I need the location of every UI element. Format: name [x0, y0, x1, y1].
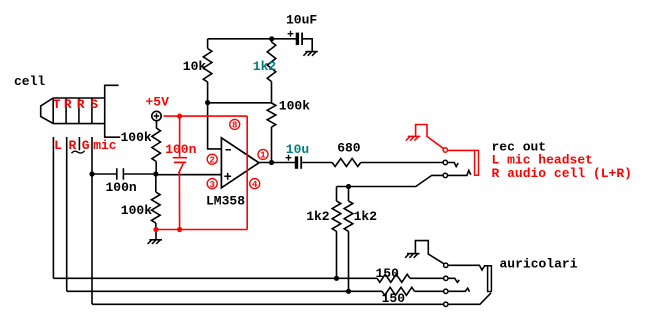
svg-text:L: L	[54, 138, 62, 153]
junction red rail C3	[177, 227, 182, 232]
svg-text:LM358: LM358	[206, 194, 245, 209]
junction mic/cap	[89, 171, 94, 176]
junction mixer R8	[346, 184, 351, 189]
label auricolari	[500, 256, 578, 271]
plug contact divider T/R	[65, 98, 67, 124]
label rec out	[492, 140, 547, 155]
pin number 2	[207, 154, 217, 165]
wire R3 to inverting node	[207, 82, 209, 103]
pin number 3	[207, 179, 217, 190]
wire G stub from plug	[78, 137, 80, 150]
wire bias node to op-amp +input	[156, 174, 222, 176]
svg-text:8: 8	[232, 121, 237, 131]
contact rec out sleeve	[443, 148, 447, 152]
headset plug body	[488, 266, 492, 292]
capacitor C2 10uF	[296, 33, 303, 45]
junction R8 bus R	[346, 289, 351, 294]
resistor R7 1k2 left	[332, 187, 341, 279]
plug ring2 label R	[77, 97, 85, 112]
resistor R1 100k bias upper	[152, 128, 161, 174]
wire bus mic	[92, 303, 444, 305]
svg-text:100n: 100n	[106, 180, 137, 195]
spring rec out tip	[448, 163, 459, 167]
contact headset sleeve	[444, 263, 448, 267]
wire sleeve to rec plug	[448, 149, 475, 151]
node inverting junction	[205, 100, 210, 105]
wire +5V red rail	[164, 115, 248, 117]
node squiggle under G	[72, 151, 85, 153]
svg-text:T: T	[53, 97, 61, 112]
ground GND3 rec out shield	[406, 136, 420, 140]
label R1 100k	[121, 130, 152, 145]
wire bus L	[53, 277, 377, 279]
svg-text:1k2: 1k2	[306, 209, 330, 224]
rec out plug body	[475, 150, 479, 175]
label C2 10uF	[286, 13, 317, 28]
wire rail to C2	[272, 38, 296, 40]
resistor R3 10k feedback	[203, 49, 212, 83]
label R5 100k	[279, 99, 310, 114]
wire C2 to ground	[303, 39, 312, 51]
capacitor C4 10u plus sign	[286, 155, 292, 161]
capacitor C3 100n decoupling lead	[179, 116, 181, 157]
svg-text:3: 3	[209, 180, 214, 190]
svg-text:100k: 100k	[121, 130, 152, 145]
label L mic headset	[492, 153, 593, 168]
ground GND2 for C2	[303, 52, 317, 56]
svg-text:100k: 100k	[121, 203, 152, 218]
contact rec out ring R	[443, 173, 447, 177]
capacitor C3 100n plates	[173, 158, 187, 163]
resistor R4 1k2 feedback	[267, 42, 276, 82]
wire op-amp plus input overdraw	[181, 174, 222, 176]
junction output node	[269, 160, 274, 165]
contact headset ring R	[444, 289, 448, 293]
wire R4 to R5	[271, 82, 273, 103]
wire R10 to headset ring2	[415, 290, 444, 292]
label C3 100n	[165, 142, 196, 157]
junction +5V rail to C3	[177, 114, 182, 119]
junction top rail to C2	[269, 36, 274, 41]
wire mic from plug	[91, 137, 93, 304]
wire op-amp output	[259, 162, 296, 164]
svg-text:R: R	[77, 97, 85, 112]
label G	[82, 138, 90, 153]
plug sleeve label S	[90, 97, 98, 112]
svg-text:100k: 100k	[279, 99, 310, 114]
connector J1 cell TRRS plug body	[41, 98, 105, 124]
resistor R10 150 lower	[382, 287, 415, 295]
capacitor C2 10uF plus sign	[288, 31, 294, 37]
contact headset ring L	[444, 276, 448, 280]
pin number 1	[258, 149, 268, 160]
label R	[69, 138, 77, 153]
cell plug label	[14, 74, 45, 89]
svg-text:1k2: 1k2	[253, 59, 277, 74]
wire +5V circle to R1	[156, 121, 158, 128]
pin number 8	[230, 119, 240, 130]
wire R4 top lead	[271, 39, 273, 42]
plug ring label R	[64, 97, 72, 112]
wire R3 top lead	[207, 39, 209, 49]
pin number 4	[250, 179, 260, 190]
label R8 1k2	[354, 209, 378, 224]
svg-text:680: 680	[337, 140, 361, 155]
wire pin8 pin4 supply line	[246, 116, 248, 229]
label C4 10u	[286, 142, 309, 157]
wire mic to coupling cap	[92, 173, 116, 175]
svg-text:1k2: 1k2	[354, 209, 378, 224]
wire tip to headset plug	[448, 293, 491, 304]
wire R6 to rec out jack	[361, 162, 443, 164]
resistor R6 680	[332, 159, 361, 167]
svg-text:100n: 100n	[165, 142, 196, 157]
svg-text:4: 4	[252, 180, 258, 190]
node bias junction	[153, 171, 158, 176]
label mic	[93, 138, 117, 153]
wire C4 to R6	[302, 162, 332, 164]
op-amp minus sign	[226, 149, 232, 151]
wire inverting node down to pin2	[208, 103, 222, 149]
svg-text:cell: cell	[14, 74, 45, 89]
wire bus R	[67, 290, 382, 292]
svg-text:10u: 10u	[286, 142, 309, 157]
svg-text:2: 2	[209, 155, 214, 165]
plug contact divider R/S	[91, 98, 93, 124]
power terminal +5V circle	[152, 111, 161, 120]
resistor R2 100k bias lower	[152, 174, 161, 230]
svg-text:G: G	[82, 138, 90, 153]
plug barrel outline	[105, 85, 121, 137]
label R6 680	[337, 140, 361, 155]
capacitor C3 lower lead	[179, 164, 183, 230]
svg-text:+5V: +5V	[146, 95, 170, 110]
junction red rail R2	[153, 227, 158, 232]
op-amp U1 LM358 triangle	[221, 138, 259, 188]
wire headset shield bracket	[415, 241, 444, 264]
svg-text:S: S	[90, 97, 98, 112]
contact rec out tip L	[443, 160, 447, 164]
wire R from plug	[66, 137, 68, 291]
wire R5 to output node	[271, 127, 273, 163]
label +5V	[146, 95, 170, 110]
plug tip label T	[53, 97, 61, 112]
spring rec out ring	[448, 170, 471, 175]
label R audio cell	[492, 166, 632, 181]
contact headset tip mic	[444, 302, 448, 306]
wire inverting node to R5	[208, 102, 272, 104]
label R9 150	[376, 266, 400, 281]
wire R2 to ground	[155, 230, 157, 240]
svg-text:10k: 10k	[183, 59, 207, 74]
svg-text:auricolari: auricolari	[500, 256, 578, 271]
capacitor C4 10u	[295, 156, 302, 168]
wire mixer rail	[337, 175, 444, 186]
label C1 100n	[106, 180, 137, 195]
svg-text:10uF: 10uF	[286, 13, 317, 28]
resistor R8 1k2 right	[344, 187, 353, 292]
label R10 150	[382, 291, 406, 306]
label R7 1k2	[306, 209, 330, 224]
label R3 10k	[183, 59, 207, 74]
resistor R9 150 upper	[377, 274, 410, 282]
spring headset ring L	[448, 278, 459, 282]
ground GND4 headset shield	[405, 254, 419, 258]
svg-text:1: 1	[260, 151, 266, 161]
capacitor C1 100n coupling	[117, 168, 124, 180]
svg-text:mic: mic	[93, 138, 117, 153]
label R2 100k	[121, 203, 152, 218]
label U1 LM358	[206, 194, 245, 209]
wire R9 to headset ring	[410, 277, 444, 279]
resistor R5 100k	[267, 103, 276, 127]
plug contact divider R/R	[78, 98, 80, 124]
wire rec out shield bracket	[416, 125, 444, 149]
wire red ground rail	[156, 229, 247, 231]
svg-text:R: R	[64, 97, 72, 112]
label L	[54, 138, 62, 153]
svg-text:150: 150	[376, 266, 400, 281]
svg-text:R: R	[69, 138, 77, 153]
junction R7 bus L	[334, 276, 339, 281]
wire cap to bias node	[123, 173, 155, 175]
ground GND1 below R2	[148, 240, 162, 244]
label R4 1k2	[253, 59, 277, 74]
op-amp plus sign	[224, 173, 231, 180]
wire top feedback rail	[208, 38, 272, 40]
wire sleeve to headset plug	[448, 265, 487, 270]
wire L from plug	[52, 137, 54, 278]
svg-text:R audio cell (L+R): R audio cell (L+R)	[492, 166, 632, 181]
spring headset ring R	[448, 288, 469, 292]
